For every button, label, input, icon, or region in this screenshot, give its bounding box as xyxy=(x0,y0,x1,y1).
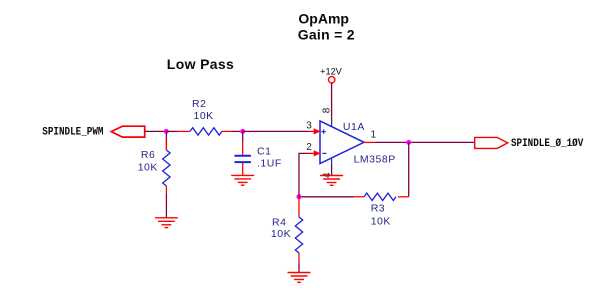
svg-text:8: 8 xyxy=(321,107,332,113)
svg-text:Low Pass: Low Pass xyxy=(167,56,234,72)
wire R3 to node D xyxy=(299,196,354,198)
ground below R6 xyxy=(155,218,178,228)
svg-text:R2: R2 xyxy=(192,98,206,110)
wire port to node A xyxy=(145,130,167,132)
svg-text:R6: R6 xyxy=(141,149,155,161)
port SPINDLE_0_10V xyxy=(475,137,508,148)
resistor R4 xyxy=(295,197,302,263)
ground below op-amp xyxy=(320,176,343,186)
svg-text:Gain = 2: Gain = 2 xyxy=(298,26,355,42)
wire R2 to node B xyxy=(232,130,243,132)
resistor R6 xyxy=(163,131,170,194)
wire node D up to op-amp pin 2 xyxy=(299,153,309,196)
op-amp pin 2 stub with arrow xyxy=(309,150,321,156)
wire +12V to op-amp pin 8 xyxy=(331,83,333,121)
svg-text:+12V: +12V xyxy=(320,66,343,76)
wire output node to R3 xyxy=(408,142,410,196)
op-amp pin 1 stub xyxy=(364,141,375,143)
svg-text:10K: 10K xyxy=(138,162,158,174)
capacitor C1 xyxy=(235,131,251,175)
op-amp U1A xyxy=(320,121,364,165)
svg-text:SPINDLE_PWM: SPINDLE_PWM xyxy=(42,126,103,139)
wire op-amp output to port xyxy=(375,141,475,143)
wire node B to op-amp pin 3 xyxy=(243,130,309,132)
wire node A to R2 xyxy=(166,130,177,132)
svg-text:3: 3 xyxy=(306,121,312,132)
port SPINDLE_PWM xyxy=(111,126,144,137)
resistor R2 xyxy=(178,128,232,135)
svg-text:1: 1 xyxy=(371,129,377,140)
svg-text:2: 2 xyxy=(306,142,312,153)
svg-text:R3: R3 xyxy=(371,202,385,214)
svg-text:10K: 10K xyxy=(194,110,214,122)
ground below C1 xyxy=(231,175,254,185)
power symbol +12V xyxy=(320,66,343,83)
node A junction xyxy=(164,129,169,134)
ground below R4 xyxy=(288,273,311,283)
wire op-amp pin 4 to ground xyxy=(331,165,333,175)
text title OpAmp Gain = 2 xyxy=(298,11,355,43)
svg-text:LM358P: LM358P xyxy=(354,153,396,165)
svg-text:R4: R4 xyxy=(272,216,286,228)
resistor R3 xyxy=(354,193,409,200)
svg-text:10K: 10K xyxy=(371,215,391,227)
wire R6 to ground xyxy=(165,194,167,218)
svg-text:C1: C1 xyxy=(257,145,271,157)
svg-text:U1A: U1A xyxy=(343,121,365,133)
node C junction xyxy=(406,140,411,145)
svg-text:OpAmp: OpAmp xyxy=(298,11,349,27)
svg-text:10K: 10K xyxy=(271,228,291,240)
op-amp pin 3 stub with arrow xyxy=(309,128,321,134)
svg-text:SPINDLE_Ø_1ØV: SPINDLE_Ø_1ØV xyxy=(511,137,584,150)
node B junction xyxy=(240,129,245,134)
wire R4 to ground xyxy=(298,262,300,272)
svg-text:.1UF: .1UF xyxy=(257,157,282,169)
node D junction xyxy=(297,194,302,199)
